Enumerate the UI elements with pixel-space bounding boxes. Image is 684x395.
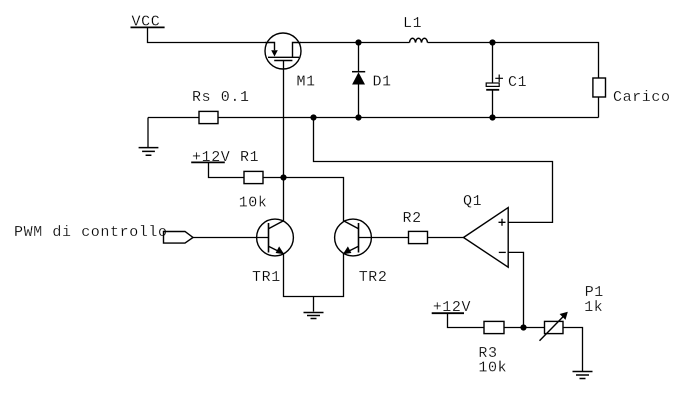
wire bottom rail: [148, 117, 599, 119]
resistor R1: [239, 171, 284, 211]
transistor M1 (P-MOSFET): [265, 33, 316, 91]
svg-text:R2: R2: [403, 210, 422, 227]
svg-text:Rs 0.1: Rs 0.1: [192, 89, 250, 106]
wire op-amp - input to R3/P1 node: [508, 252, 523, 327]
potentiometer P1: [540, 284, 604, 341]
wire feedback: sense node down, right, up to op-amp + input: [314, 118, 553, 223]
junction node diode bottom: [355, 114, 361, 120]
diode D1: [352, 43, 392, 118]
ground (emitters): [304, 297, 324, 319]
svg-text:C1: C1: [508, 74, 527, 91]
wire top rail M1 to L1: [301, 42, 410, 44]
resistor R3: [478, 321, 544, 376]
resistor Carico (load): [593, 78, 671, 118]
svg-text:L1: L1: [403, 15, 422, 32]
resistor Rs 0.1: [192, 89, 250, 123]
net label VCC: [132, 14, 161, 31]
svg-text:PWM di controllo: PWM di controllo: [14, 224, 168, 241]
svg-text:Carico: Carico: [613, 89, 671, 106]
input port PWM di controllo: [14, 224, 193, 243]
junction node sense (feedback tap): [310, 114, 316, 120]
junction node R1 / collectors: [280, 174, 286, 180]
wire TR1/TR2 emitters to common rail: [284, 254, 344, 297]
svg-text:D1: D1: [373, 74, 392, 91]
junction node at switch/diode top: [355, 39, 361, 45]
svg-text:M1: M1: [297, 74, 316, 91]
op-amp Q1 (comparator, pointing left): [463, 193, 508, 267]
wire P1 to ground: [563, 328, 583, 372]
wire TR2 base to R2: [359, 237, 409, 239]
transistor TR1 (NPN): [252, 219, 293, 286]
ground (left, below Rs rail): [139, 118, 159, 156]
wire L1 to Carico corner: [428, 43, 599, 79]
svg-text:Q1: Q1: [463, 193, 482, 210]
capacitor C1: [486, 43, 527, 118]
svg-text:1k: 1k: [584, 299, 603, 316]
svg-text:TR2: TR2: [359, 269, 388, 286]
wire M1 gate down through R1 node to TR1 collector: [283, 61, 285, 222]
wire R1 node to TR2 collector: [284, 178, 344, 222]
ground (P1): [573, 372, 593, 379]
junction node C1 bottom: [489, 114, 495, 120]
svg-text:10k: 10k: [239, 195, 268, 212]
power +12V (R1 pull-up): [191, 149, 259, 178]
wire PWM port to TR1 base: [193, 237, 269, 239]
junction node R3 / P1 / op-amp -: [520, 324, 526, 330]
wire VCC stub to top rail: [148, 27, 266, 42]
svg-text:TR1: TR1: [252, 269, 281, 286]
resistor R2: [403, 210, 428, 244]
junction node at L1 output / C1 top: [489, 39, 495, 45]
wire R2 to op-amp output: [428, 237, 464, 239]
power +12V (reference divider): [432, 299, 484, 328]
transistor TR2 (NPN mirrored): [335, 219, 388, 286]
svg-text:10k: 10k: [478, 360, 507, 377]
inductor L1: [403, 15, 428, 43]
